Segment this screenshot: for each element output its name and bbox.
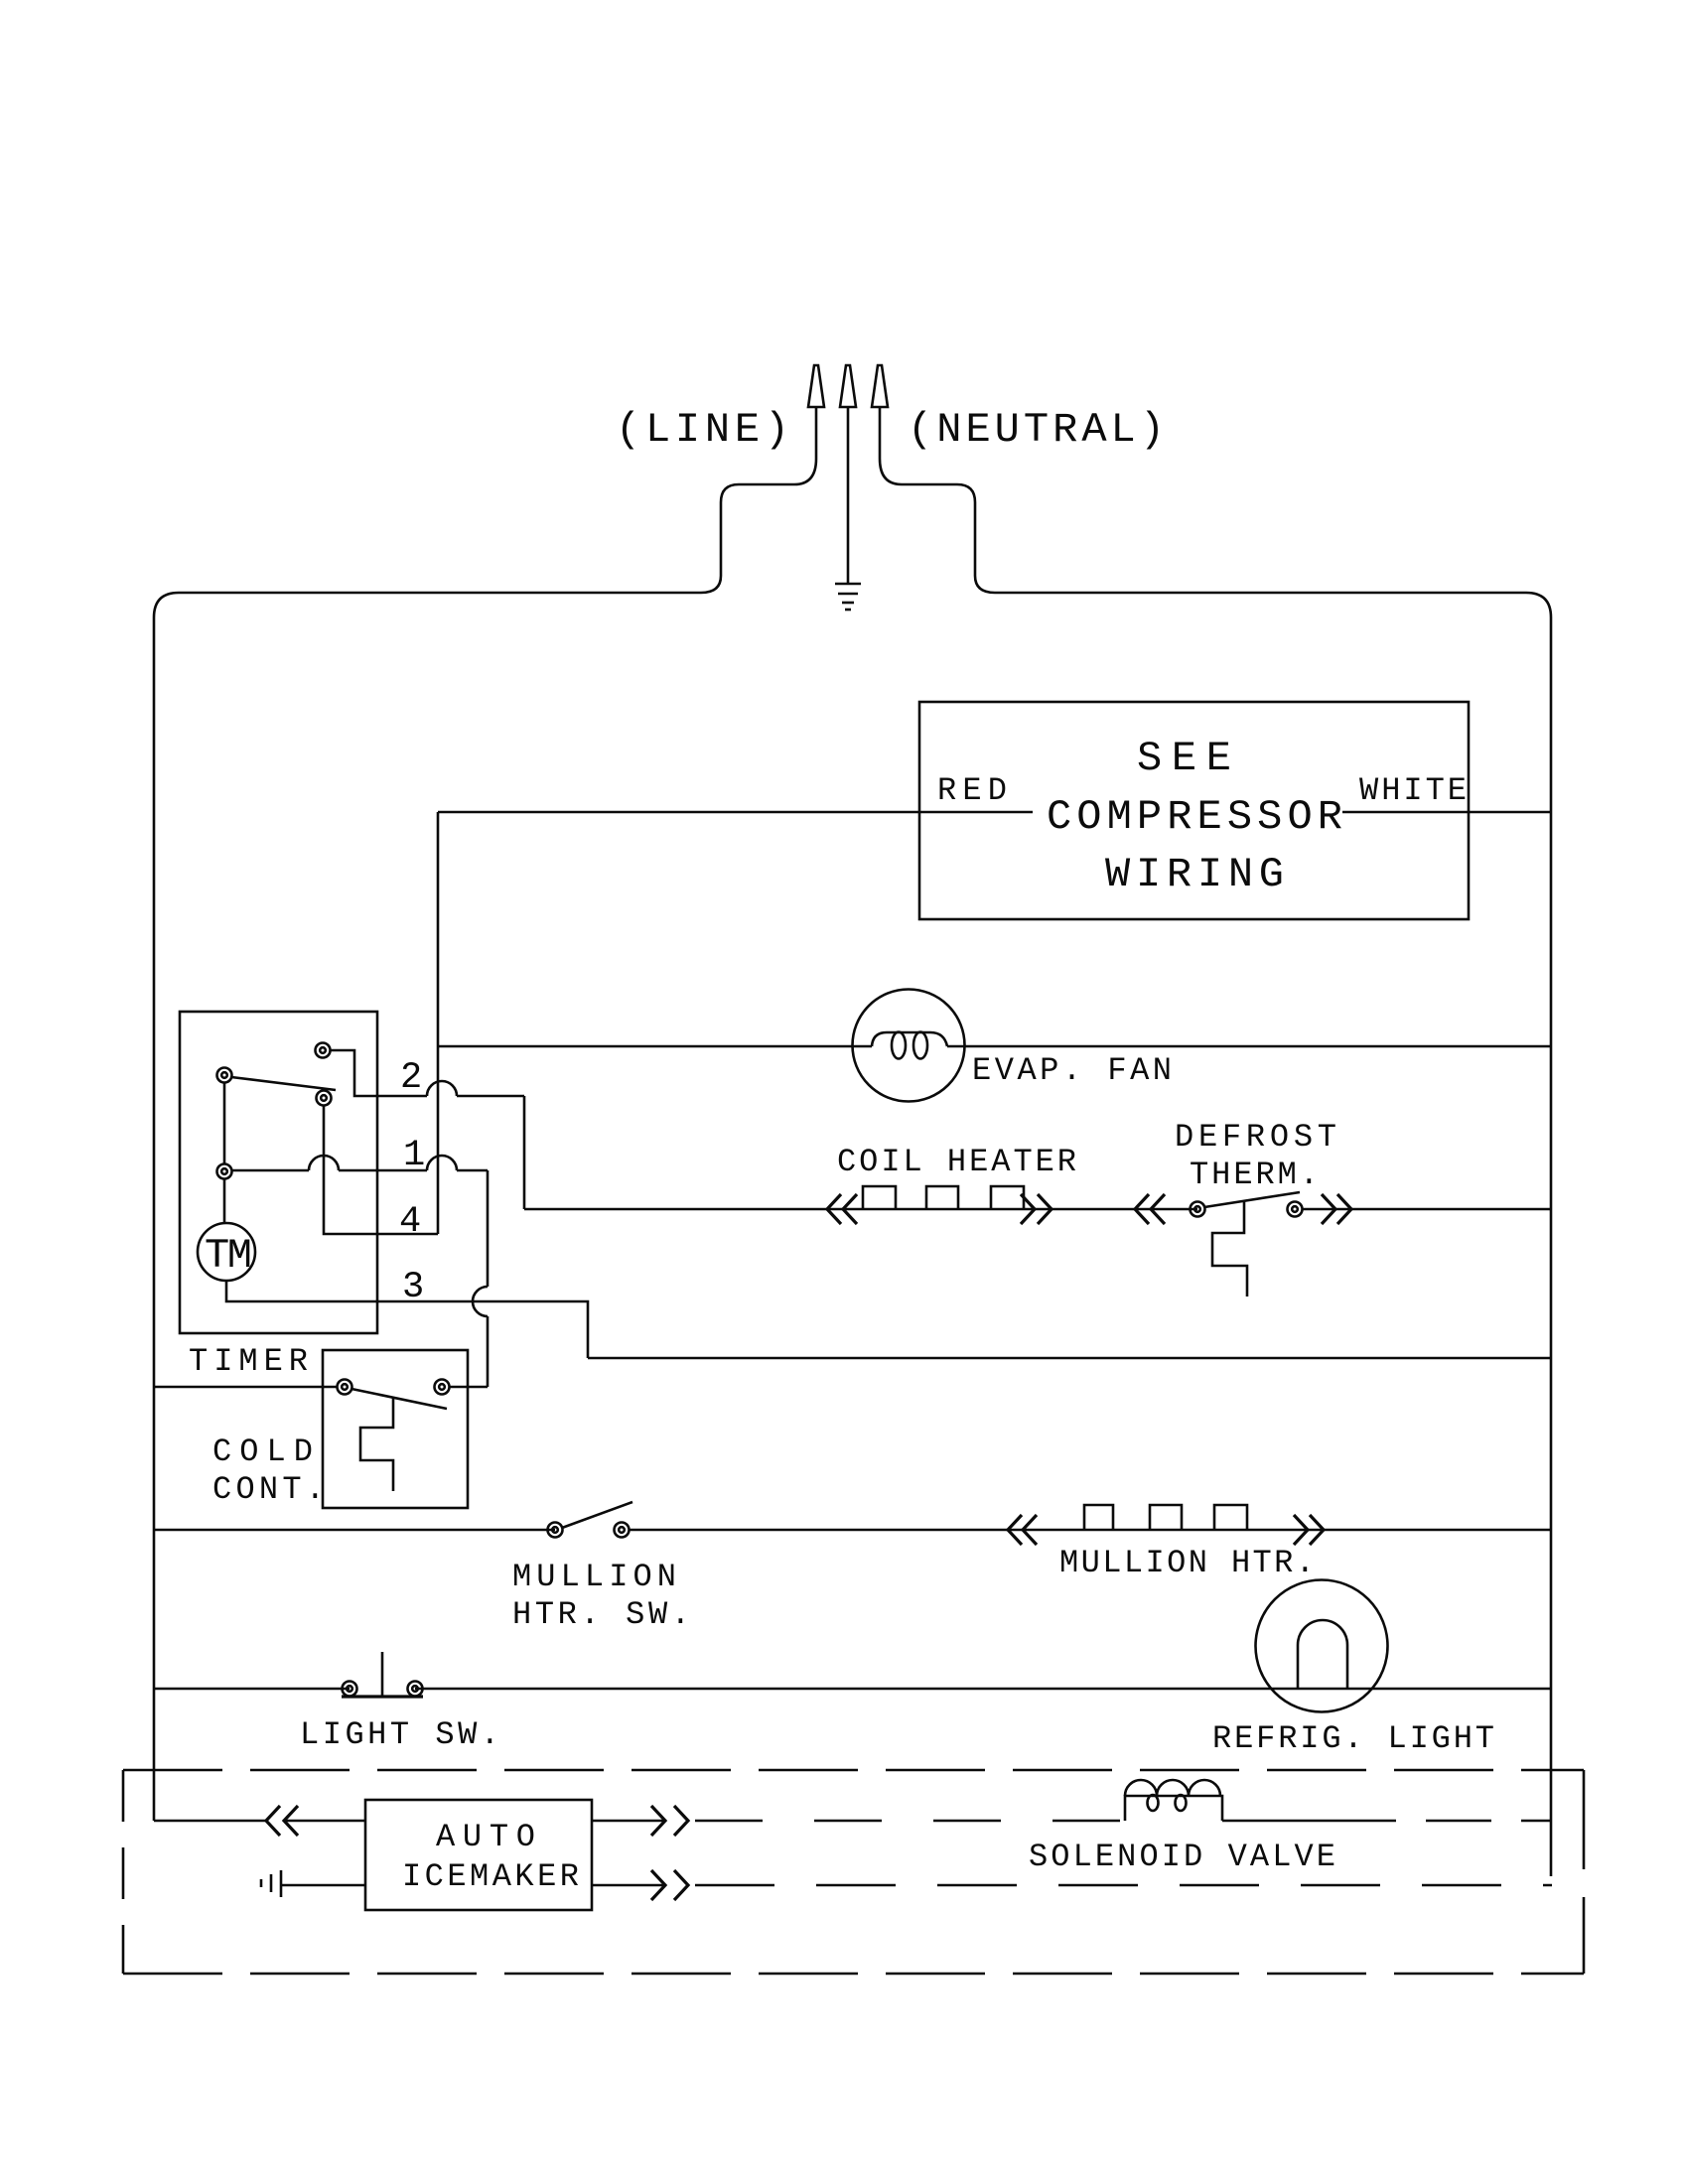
connector chevrons left of defrost therm <box>1135 1194 1165 1224</box>
svg-text:TM: TM <box>205 1232 252 1280</box>
pin label 3 <box>402 1267 424 1308</box>
label COIL HEATER <box>837 1144 1076 1180</box>
wire: dashed row1 to solenoid <box>695 1820 1125 1823</box>
label RED <box>937 772 1007 809</box>
wire: RED lead from riser to compressor <box>438 811 1033 814</box>
thermostat zigzag defrost therm <box>1212 1201 1247 1297</box>
power plug prong LINE <box>808 365 824 407</box>
light switch actuator <box>381 1652 384 1696</box>
pin label 1 <box>403 1135 425 1176</box>
svg-text:SEE: SEE <box>1137 735 1231 782</box>
wire: T3 drop and link to RED riser, pin 4 <box>324 1106 438 1234</box>
label THERM. <box>1190 1157 1319 1193</box>
label SEE <box>1137 735 1231 782</box>
power plug prong GROUND (center) <box>840 365 856 407</box>
timer switch arm T2-T3 <box>231 1077 336 1090</box>
switch arm defrost therm <box>1204 1192 1300 1207</box>
wire: dashed row1 solenoid to right border <box>1222 1820 1551 1823</box>
svg-text:RED: RED <box>937 772 1007 809</box>
wire: pin 2 drop to coil heater row <box>523 1096 526 1209</box>
switch: MULLION HTR. SW. right terminal <box>615 1523 630 1538</box>
connector chevrons left of mullion heater <box>1008 1515 1037 1545</box>
pin label 2 <box>400 1057 422 1099</box>
svg-text:TIMER: TIMER <box>189 1343 308 1380</box>
box: SEE COMPRESSOR WIRING <box>919 702 1469 919</box>
svg-text:4: 4 <box>399 1201 421 1243</box>
connector chevrons right of mullion heater <box>1294 1515 1324 1545</box>
label MULLION HTR. <box>1059 1545 1315 1581</box>
wire: WHITE lead from compressor to right border <box>1342 811 1551 814</box>
lamp: REFRIG. LIGHT <box>1256 1580 1388 1712</box>
timer terminal T4 <box>217 1164 232 1179</box>
wire: mullion row right <box>630 1529 1551 1532</box>
wire: pin1 riser down to cold control with hop 3 <box>473 1170 488 1387</box>
wire: light row left <box>154 1688 350 1691</box>
svg-text:MULLION: MULLION <box>512 1559 676 1595</box>
wire: evap fan row right <box>947 1045 1551 1048</box>
ground symbol (icemaker earth) <box>261 1870 281 1897</box>
svg-text:(NEUTRAL): (NEUTRAL) <box>908 406 1165 454</box>
svg-text:CONT.: CONT. <box>212 1471 325 1508</box>
svg-text:WHITE: WHITE <box>1359 772 1467 809</box>
wire: T1 out with hop, pin 2 <box>331 1050 524 1096</box>
wire: mullion row left <box>154 1529 555 1532</box>
timer box <box>180 1012 377 1333</box>
label MULLION <box>512 1559 676 1595</box>
label AUTO <box>436 1819 535 1855</box>
light switch bar <box>342 1695 423 1698</box>
wire: NEUTRAL prong lead, cabinet border top-right, right side <box>880 407 1551 1876</box>
wire: left border to cold control <box>154 1386 337 1389</box>
wire: icemaker feed from left border <box>154 1820 266 1823</box>
connector chevrons right of defrost therm <box>1322 1194 1351 1224</box>
wire: defrost therm right to border <box>1302 1208 1551 1211</box>
box: AUTO ICEMAKER <box>365 1800 592 1910</box>
label (LINE) <box>616 406 789 454</box>
cold control thermostat zigzag <box>360 1398 393 1491</box>
cold control right terminal <box>435 1380 450 1395</box>
label COMPRESSOR <box>1047 793 1342 841</box>
wire: LINE prong lead, cabinet border top-left, left side <box>154 407 816 1821</box>
box: COLD CONT. control <box>323 1350 468 1508</box>
motor: EVAP. FAN (circle with winding) <box>853 990 965 1102</box>
ground symbol (plug earth) <box>835 584 861 610</box>
label CONT. <box>212 1471 325 1508</box>
wire: ground to icemaker box <box>282 1884 365 1887</box>
label (NEUTRAL) <box>908 406 1165 454</box>
timer terminal T3 <box>317 1091 332 1106</box>
cold control switch arm <box>351 1389 447 1409</box>
switch: LIGHT SW. right terminal <box>408 1682 423 1697</box>
label ICEMAKER <box>402 1858 579 1895</box>
label EVAP. FAN <box>972 1052 1172 1089</box>
label REFRIG. LIGHT <box>1212 1720 1494 1757</box>
connector chevrons out row2 <box>651 1870 688 1900</box>
label WHITE <box>1359 772 1467 809</box>
label DEFROST <box>1175 1119 1336 1156</box>
wire: icemaker box out row1 <box>592 1820 665 1823</box>
label WIRING <box>1105 851 1284 898</box>
svg-text:1: 1 <box>403 1135 425 1176</box>
wire: T2 to T4 <box>223 1083 226 1163</box>
switch: LIGHT SW. left terminal <box>343 1682 357 1697</box>
pin label 4 <box>399 1201 421 1243</box>
wire: RED riser (vertical) <box>437 812 440 1234</box>
svg-text:LIGHT SW.: LIGHT SW. <box>300 1716 499 1753</box>
wire: chevrons to icemaker box <box>284 1820 365 1823</box>
switch: DEFROST THERM. left terminal <box>1191 1202 1205 1217</box>
wire: evap fan row left <box>438 1045 872 1048</box>
wire: dashed row2 <box>695 1884 1552 1887</box>
wire: TM motor bottom to rail 4 <box>226 1281 588 1358</box>
resistor: MULLION HTR. (square wave) <box>1084 1505 1247 1530</box>
connector chevrons left of coil heater <box>827 1194 857 1224</box>
svg-text:EVAP. FAN: EVAP. FAN <box>972 1052 1172 1089</box>
wire: light row right <box>415 1688 1551 1691</box>
connector chevrons right of coil heater <box>1021 1194 1052 1224</box>
resistor: COIL HEATER (square wave) <box>863 1186 1024 1209</box>
timer terminal T1 <box>316 1043 331 1058</box>
power plug prong NEUTRAL <box>872 365 888 407</box>
label LIGHT SW. <box>300 1716 499 1753</box>
label TIMER <box>189 1343 308 1380</box>
wire: rail 4 (defrost return) <box>588 1357 1551 1360</box>
svg-text:DEFROST: DEFROST <box>1175 1119 1336 1156</box>
svg-text:COIL HEATER: COIL HEATER <box>837 1144 1076 1180</box>
wire: ground prong lead <box>847 407 850 584</box>
wire: icemaker box out row2 <box>592 1884 665 1887</box>
label COLD <box>212 1433 313 1470</box>
svg-text:2: 2 <box>400 1057 422 1099</box>
mullion switch arm <box>562 1502 632 1528</box>
inductor: SOLENOID VALVE <box>1125 1780 1222 1821</box>
wire: coil heater row <box>524 1208 1197 1211</box>
wire: T4 to TM motor <box>223 1179 226 1223</box>
connector chevrons icemaker feed <box>266 1806 298 1836</box>
motor TM (timer motor) <box>198 1223 255 1281</box>
label HTR. SW. <box>512 1596 690 1633</box>
cold control left terminal <box>338 1380 352 1395</box>
timer terminal T2 <box>217 1068 232 1083</box>
switch: MULLION HTR. SW. left terminal <box>548 1523 563 1538</box>
dashed enclosure (icemaker compartment) <box>123 1770 1584 1974</box>
wire: T4 out with hops, pin 1 <box>232 1156 488 1170</box>
connector chevrons out row1 <box>651 1806 688 1836</box>
label SOLENOID VALVE <box>1029 1839 1335 1875</box>
switch: DEFROST THERM. right terminal <box>1288 1202 1303 1217</box>
wire: cold control right terminal to riser <box>450 1386 488 1389</box>
